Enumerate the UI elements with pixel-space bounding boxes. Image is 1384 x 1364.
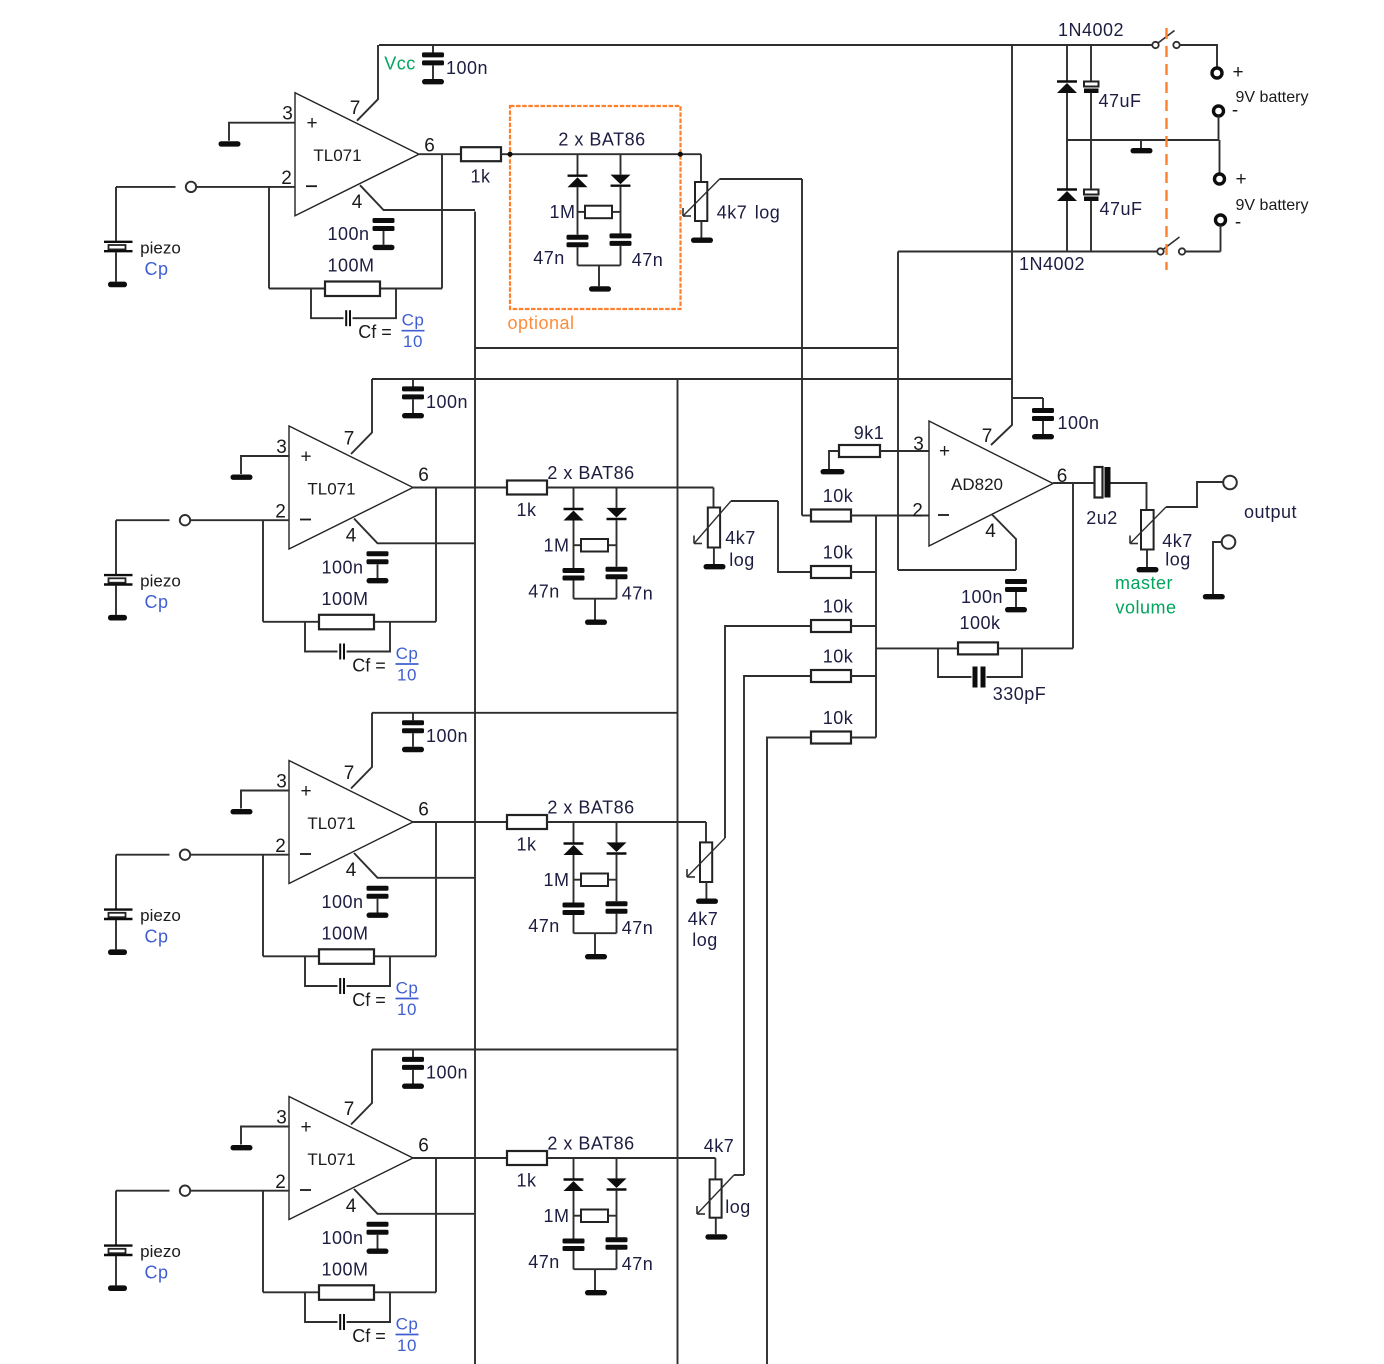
wire mid rail to battery2 + (1219, 140, 1221, 174)
resistor R2a 1k (stage 2 output) (507, 481, 547, 521)
wire VR4 wiper to mixer (734, 1174, 744, 1176)
svg-text:9V battery: 9V battery (1236, 89, 1309, 106)
label 100n (stage 3 Vcc cap) (426, 726, 468, 746)
capacitor 100n (stage 2 Vcc decoupling) (402, 379, 424, 413)
separator (chassis boundary, orange dashed) (1165, 28, 1167, 270)
svg-text:10: 10 (397, 1000, 417, 1019)
label 100n (U2 pin 4 cap) (321, 558, 363, 578)
label 100n (stage 4 Vcc cap) (426, 1063, 468, 1083)
wire R13 to summing bus (851, 625, 876, 627)
svg-text:10k: 10k (823, 597, 854, 617)
label + input (U5) (939, 441, 950, 462)
svg-text:7: 7 (982, 426, 993, 447)
capacitor 100n (stage 3 Vcc decoupling) (402, 713, 424, 747)
potentiometer VR2 4k7 log (stage 2 volume) (694, 501, 731, 548)
wire switch2 to battery2 - (1185, 251, 1220, 253)
svg-text:log: log (1165, 550, 1191, 570)
label pin 7 (U4) (344, 1099, 355, 1120)
svg-text:100n: 100n (426, 1063, 468, 1083)
switch SW2 (V- on/off) (1157, 237, 1185, 255)
svg-text:piezo: piezo (140, 1242, 181, 1261)
piezo transducer Cp (stage 2) (104, 520, 133, 615)
svg-text:9V battery: 9V battery (1236, 197, 1309, 214)
piezo transducer Cp (stage 3) (104, 855, 133, 950)
wire U4 pin 7 to Vcc rail (351, 1050, 372, 1125)
ground (piezo 1) (108, 282, 127, 288)
wire U4 pin 3 (+) input (241, 1127, 289, 1145)
capacitor 100n (stage 1 Vcc decoupling) (422, 45, 444, 79)
label pin 7 (U3) (344, 763, 355, 784)
label Cf formula (stage 1) (358, 311, 424, 352)
svg-text:+: + (939, 441, 950, 462)
label Cp (stage 2) (144, 592, 168, 612)
node input 3 (jack) (180, 850, 190, 860)
wire U3 pin 4 to V- bus (354, 853, 475, 878)
ground (stage 3 Vcc cap) (402, 747, 424, 752)
ground (piezo 2) (108, 615, 127, 621)
ground (piezo 3) (108, 949, 127, 955)
svg-text:2: 2 (912, 501, 923, 522)
ground (VR5) (1137, 567, 1159, 572)
svg-text:6: 6 (418, 800, 429, 821)
svg-text:10k: 10k (823, 486, 854, 506)
svg-text:9k1: 9k1 (854, 423, 885, 443)
wire Vcc bus down the page (677, 379, 679, 1364)
diode D1b BAT86 (down) (611, 154, 631, 233)
label log (VR3) (692, 930, 718, 950)
label pin 2 (U1) (281, 168, 292, 189)
svg-text:47n: 47n (622, 918, 654, 938)
svg-text:10: 10 (397, 666, 417, 685)
svg-text:4k7: 4k7 (688, 909, 719, 929)
wire R15 to summing bus (851, 737, 876, 739)
ground (VR1) (691, 238, 713, 243)
svg-text:100n: 100n (1057, 413, 1099, 433)
wire Vcc rail (stage 4) (372, 1049, 678, 1051)
svg-text:2 x BAT86: 2 x BAT86 (558, 130, 645, 150)
svg-text:10: 10 (403, 332, 423, 351)
wire U4 output to 1k (413, 1157, 507, 1159)
label Cp (stage 4) (144, 1263, 168, 1283)
svg-text:4k7: 4k7 (1162, 531, 1193, 551)
svg-text:4: 4 (346, 1196, 357, 1217)
node input 4 (jack) (180, 1186, 190, 1196)
label 47n right (stage 4) (622, 1254, 654, 1274)
wire battery2 - to bottom rail (1220, 225, 1222, 252)
label 47n left (stage 1) (533, 248, 565, 268)
wire input 3 to U3 pin 2 (190, 854, 289, 856)
wire piezo 1 to input gap (116, 186, 176, 188)
ground (U2 pin 4 cap) (367, 578, 389, 583)
svg-text:+: + (300, 781, 311, 802)
label 1N4002 (top) (1058, 20, 1124, 40)
wire stage1 wiper bus down to mixer (801, 179, 803, 516)
label 2 x BAT86 (stage 2) (547, 463, 634, 483)
label 47n left (stage 4) (528, 1252, 560, 1272)
svg-text:100k: 100k (959, 613, 1001, 633)
wire stage 3 signal row (547, 821, 706, 823)
battery2 - terminal (1216, 212, 1242, 233)
ground (U4 pin 4 cap) (367, 1249, 389, 1254)
ground (U1 pin 4 cap) (373, 245, 395, 250)
wire VR2 bottom to ground (713, 548, 715, 565)
wire U1 output junction down (441, 154, 443, 288)
svg-text:1N4002: 1N4002 (1019, 254, 1085, 274)
node optional-module right terminal (678, 152, 683, 157)
wire V+ feed down to mixer rail (991, 45, 1012, 445)
label 47n right (stage 1) (632, 250, 664, 270)
svg-text:2u2: 2u2 (1086, 508, 1118, 528)
wire BAT86 network bottom (stage 3) (574, 932, 617, 934)
node output jack (hot) (1223, 476, 1237, 490)
svg-text:Cp: Cp (144, 927, 168, 947)
resistor R14 10k (ch4 sum) (811, 647, 854, 683)
ground (stage 2 Vcc cap) (402, 413, 424, 418)
label pin 2 (U4) (275, 1172, 286, 1193)
resistor R12 10k (ch2 sum) (811, 543, 854, 579)
battery2 + terminal (1215, 169, 1247, 190)
svg-text:Cf =: Cf = (352, 990, 386, 1010)
svg-text:+: + (300, 447, 311, 468)
capacitor C_P1 47uF (V+ filter) (1084, 45, 1099, 140)
resistor 100M (stage 1 feedback) (325, 256, 380, 296)
label 4k7 (VR5) (1162, 531, 1193, 551)
label pin 4 (U2) (346, 526, 357, 547)
label 4k7 (VR4) (704, 1136, 735, 1156)
label 100n (U3 pin 4 cap) (321, 892, 363, 912)
svg-text:+: + (300, 1117, 311, 1138)
svg-text:100n: 100n (327, 224, 369, 244)
potentiometer VR3 4k7 log (stage 3 volume) (687, 838, 725, 882)
wire VR2 wiper to mixer (731, 500, 778, 502)
capacitor C1b 47n (stage 1) (610, 233, 632, 265)
wire summing node bus (875, 516, 877, 738)
wire feedback row (stage 4) (263, 1291, 319, 1293)
svg-text:1k: 1k (470, 167, 491, 187)
resistor 100M (stage 2 feedback) (319, 589, 374, 629)
svg-text:output: output (1244, 502, 1297, 522)
wire input 4 to U4 pin 2 (190, 1190, 289, 1192)
label 100n (C9) (1057, 413, 1099, 433)
wire piezo 2 to input gap (116, 519, 170, 521)
svg-text:+: + (306, 113, 317, 134)
label Cf formula (stage 2) (352, 644, 418, 685)
label master volume (green) (1115, 573, 1177, 618)
optional snubber module box (orange dashed) (510, 106, 681, 309)
svg-text:47n: 47n (528, 916, 560, 936)
wire R12 to summing bus (851, 571, 876, 573)
svg-text:piezo: piezo (140, 238, 181, 257)
svg-text:4: 4 (346, 526, 357, 547)
wire C12 to master volume (1111, 483, 1147, 510)
wire U2 output junction down (435, 488, 437, 622)
wire U4 inverting input to feedback (262, 1191, 264, 1293)
wire Vcc rail (stage 2) (372, 378, 1012, 380)
ground (U2 pin 3) (231, 475, 253, 480)
svg-text:log: log (692, 930, 718, 950)
ground (C9) (1032, 434, 1054, 439)
label + input (U1) (306, 113, 317, 134)
potentiometer VR4 4k7 log (stage 4 volume) (697, 1175, 734, 1218)
wire U3 inverting input to feedback (262, 855, 264, 957)
wire U2 inverting input to feedback (262, 520, 264, 622)
capacitor C11 330pF (U5 feedback) (938, 648, 1022, 687)
ground (stage 4 BAT86 network) (585, 1290, 607, 1295)
piezo transducer Cp (stage 1) (104, 187, 133, 282)
capacitor 100n (U4 pin 4 decoupling) (367, 1222, 389, 1249)
label pin 3 (U2) (276, 437, 287, 458)
wire V- to AD820 pin 4 (898, 569, 1016, 571)
svg-text:+: + (1235, 169, 1246, 190)
wire VR1 bottom to ground (700, 221, 702, 238)
op-amp U5 AD820 (mixer) (929, 421, 1053, 546)
svg-text:piezo: piezo (140, 572, 181, 591)
svg-text:master: master (1115, 573, 1173, 593)
wire R14 to summing bus (851, 675, 876, 677)
svg-text:1k: 1k (516, 1171, 537, 1191)
ground (VR2) (704, 564, 726, 569)
svg-text:Cp: Cp (402, 311, 425, 330)
diode D2a BAT86 (up) (564, 488, 584, 569)
wire stage 2 to volume pot (713, 488, 715, 508)
label 2u2 (C12) (1086, 508, 1118, 528)
svg-text:1M: 1M (543, 1206, 569, 1226)
wire U1 output to 1k (419, 153, 461, 155)
capacitor C4a 47n (stage 4) (563, 1239, 585, 1270)
resistor 100M (stage 3 feedback) (319, 924, 374, 964)
wire VR5 bottom to ground (1146, 550, 1148, 568)
wire BAT86 network bottom (stage 2) (574, 598, 617, 600)
svg-text:1M: 1M (543, 870, 569, 890)
label 1N4002 (bottom) (1019, 254, 1085, 274)
wire U4 pin 4 to V- bus (354, 1189, 475, 1214)
svg-text:47n: 47n (632, 250, 664, 270)
switch SW1 (V+ on/off) (1152, 31, 1179, 49)
svg-text:47uF: 47uF (1099, 199, 1142, 219)
capacitor C2b 47n (stage 2) (606, 567, 628, 599)
wire U5 output (1053, 482, 1095, 484)
wire feedback row (stage 1) (269, 288, 325, 290)
battery1 - terminal (1214, 100, 1239, 121)
svg-text:7: 7 (344, 1099, 355, 1120)
svg-text:47n: 47n (622, 584, 654, 604)
resistor R11 10k (ch1 sum) (811, 486, 854, 522)
wire feedback row (stage 3) (263, 955, 319, 957)
wire U2 pin 3 (+) input (241, 456, 289, 474)
svg-text:100M: 100M (327, 256, 374, 276)
resistor R13 10k (ch3 sum) (811, 597, 854, 633)
svg-text:log: log (725, 1197, 751, 1217)
svg-text:TL071: TL071 (313, 146, 361, 165)
wire mid rail (0V) (1067, 139, 1219, 141)
svg-text:47uF: 47uF (1098, 91, 1141, 111)
svg-text:7: 7 (344, 429, 355, 450)
svg-text:47n: 47n (528, 582, 560, 602)
capacitor C4b 47n (stage 4) (606, 1237, 628, 1269)
label log (VR4) (725, 1197, 751, 1217)
label 100n (U1 pin 4 cap) (327, 224, 369, 244)
wire VR1 wiper to mixer (720, 178, 802, 180)
svg-text:2 x BAT86: 2 x BAT86 (547, 798, 634, 818)
diode D4a BAT86 (up) (564, 1158, 584, 1239)
piezo transducer Cp (stage 4) (104, 1191, 133, 1286)
svg-text:47n: 47n (622, 1254, 654, 1274)
op-amp U4 TL071 (289, 1097, 413, 1220)
ground (stage 2 BAT86 network) (585, 620, 607, 625)
label 2 x BAT86 (stage 3) (547, 798, 634, 818)
svg-text:Cf =: Cf = (352, 1326, 386, 1346)
label 2 x BAT86 (stage 4) (547, 1134, 634, 1154)
svg-text:100M: 100M (321, 1260, 368, 1280)
label optional (orange) (507, 313, 574, 333)
label piezo (stage 3) (140, 906, 181, 925)
label pin 4 (U1) (352, 192, 363, 213)
label pin 6 (U1) (424, 136, 435, 157)
wire U1 pin 3 (+) input (229, 123, 295, 141)
wire U3 pin 7 to Vcc rail (351, 713, 372, 789)
label + input (U3) (300, 781, 311, 802)
svg-text:1k: 1k (516, 835, 537, 855)
label output (1244, 502, 1297, 522)
wire U1 inverting input to feedback (268, 187, 270, 289)
svg-text:log: log (729, 550, 755, 570)
wire switch to battery1 + (1180, 45, 1217, 68)
label 9V battery (top) (1236, 89, 1309, 106)
capacitor C3b 47n (stage 3) (606, 901, 628, 933)
svg-text:7: 7 (344, 763, 355, 784)
label - input (U1) (306, 185, 317, 187)
node input 1 (jack) (186, 182, 196, 192)
svg-text:1M: 1M (549, 202, 575, 222)
svg-text:-: - (1232, 100, 1238, 121)
label Cf formula (stage 3) (352, 979, 418, 1020)
label pin 3 (U4) (276, 1108, 287, 1129)
diode D2 1N4002 (V- rectifier) (1057, 140, 1077, 252)
svg-text:-: - (1235, 212, 1241, 233)
wire 9k1 to AD820 pin 3 (880, 450, 929, 452)
svg-text:Vcc: Vcc (384, 54, 416, 74)
wire stage1 bus to R11 (802, 515, 811, 517)
resistor R3b 1M (stage 3) (543, 870, 616, 890)
label 4k7 (VR1) (717, 203, 748, 223)
svg-text:3: 3 (913, 434, 924, 455)
wire U3 output to 1k (413, 821, 507, 823)
label log (VR5) (1165, 550, 1191, 570)
resistor R15 10k (ch5 sum) (811, 708, 854, 744)
ground (U3 pin 3) (231, 809, 253, 814)
svg-text:4k7: 4k7 (717, 203, 748, 223)
wire stage4 wiper bus up to mixer (744, 676, 811, 1175)
svg-text:TL071: TL071 (307, 1150, 355, 1169)
svg-text:10k: 10k (823, 708, 854, 728)
resistor R2b 1M (stage 2) (543, 536, 616, 556)
capacitor Cf (stage 4 feedback) (305, 1292, 390, 1330)
svg-text:10k: 10k (823, 543, 854, 563)
resistor R4a 1k (stage 4 output) (507, 1151, 547, 1191)
label pin 6 (U4) (418, 1136, 429, 1157)
label + input (U4) (300, 1117, 311, 1138)
label - input (U5) (938, 514, 949, 516)
capacitor Cf (stage 2 feedback) (305, 622, 390, 660)
svg-text:Cp: Cp (144, 592, 168, 612)
svg-text:100M: 100M (321, 589, 368, 609)
label 47n right (stage 3) (622, 918, 654, 938)
svg-text:47n: 47n (533, 248, 565, 268)
svg-text:4: 4 (985, 521, 996, 542)
resistor R1b 1M (stage 1) (549, 202, 620, 222)
svg-text:3: 3 (276, 437, 287, 458)
label Vcc (green) (384, 54, 416, 74)
wire BAT86 network bottom (stage 1) (578, 264, 621, 266)
label pin 6 (U3) (418, 800, 429, 821)
wire BAT86 network bottom (stage 4) (574, 1268, 617, 1270)
wire V+ top rail (379, 44, 1152, 46)
svg-text:Cf =: Cf = (352, 656, 386, 676)
label piezo (stage 2) (140, 572, 181, 591)
ground (C10) (1005, 607, 1027, 612)
svg-text:10: 10 (397, 1336, 417, 1355)
label 100n (U4 pin 4 cap) (321, 1228, 363, 1248)
resistor R1a 1k (stage 1 output) (461, 147, 501, 187)
svg-text:4: 4 (346, 860, 357, 881)
wire VR3 wiper to mixer (724, 837, 726, 839)
svg-text:1k: 1k (516, 500, 537, 520)
wire U3 output junction down (435, 822, 437, 956)
svg-text:Cp: Cp (396, 1315, 419, 1334)
wire stage 4 signal row (547, 1157, 715, 1159)
svg-text:10k: 10k (823, 647, 854, 667)
svg-text:330pF: 330pF (993, 684, 1047, 704)
ground (stage 1 BAT86 network) (589, 286, 611, 291)
ground (stage 1 Vcc cap) (422, 79, 444, 84)
label pin 6 (U5) (1057, 466, 1068, 487)
label Cp (stage 3) (144, 927, 168, 947)
wire stage 3 to volume pot (705, 822, 707, 842)
svg-text:100n: 100n (446, 58, 488, 78)
svg-text:100M: 100M (321, 924, 368, 944)
svg-text:6: 6 (418, 1136, 429, 1157)
op-amp U1 TL071 (295, 93, 419, 216)
capacitor C12 2u2 (output coupling) (1095, 467, 1111, 498)
ground (output jack) (1203, 594, 1225, 599)
svg-text:piezo: piezo (140, 906, 181, 925)
label pin 4 (U5) (985, 521, 996, 542)
wire U5 pin 4 to V- (992, 515, 1016, 571)
resistor R3a 1k (stage 3 output) (507, 815, 547, 855)
wire stage2 wiper bus down to mixer (778, 501, 811, 572)
wire VR3 bottom to ground (705, 882, 707, 899)
wire summing node to AD820 pin 2 (851, 515, 929, 517)
wire input 1 to U1 pin 2 (196, 186, 295, 188)
wire U2 pin 7 to Vcc rail (351, 379, 372, 454)
ground (VR4) (705, 1234, 727, 1239)
capacitor Cf (stage 1 feedback) (311, 289, 396, 327)
capacitor C9 100n (U5 V+ decoupling) (1012, 398, 1054, 434)
wire U3 pin 3 (+) input (241, 791, 289, 809)
wire stage 1 to volume pot (700, 154, 702, 182)
label - input (U3) (300, 853, 311, 855)
capacitor C1a 47n (stage 1) (567, 235, 589, 266)
label piezo (stage 1) (140, 238, 181, 257)
resistor 100M (stage 4 feedback) (319, 1260, 374, 1300)
ground (piezo 4) (108, 1285, 127, 1291)
svg-text:Cp: Cp (396, 644, 419, 663)
diode D2b BAT86 (down) (607, 488, 627, 567)
label 330pF (C11) (993, 684, 1047, 704)
label pin 7 (U1) (350, 98, 361, 119)
label pin 3 (U5) (913, 434, 924, 455)
wire V- bus down the page (474, 212, 476, 1364)
